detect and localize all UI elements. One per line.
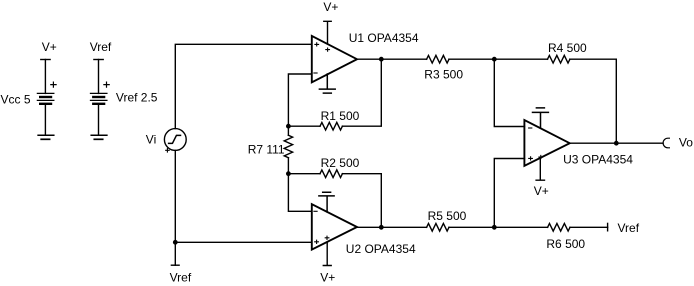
resistor R2 500	[320, 170, 342, 178]
op-amp U2 input plus marker	[315, 240, 319, 243]
label Vref right terminal	[618, 221, 640, 235]
wire R1 left	[288, 125, 320, 127]
terminal Vref bottom bar	[171, 264, 179, 266]
battery V2 plates	[91, 93, 107, 103]
resistor R3 500	[427, 55, 449, 63]
wire R7 bottom stub	[287, 158, 289, 174]
svg-text:Vref: Vref	[170, 271, 192, 285]
label R3 500	[424, 68, 463, 82]
svg-text:Vref: Vref	[618, 221, 640, 235]
wire R4 left	[494, 58, 547, 60]
label Vref 2.5	[116, 90, 158, 104]
svg-text:R4 500: R4 500	[548, 41, 587, 55]
battery V1 Vcc terminal bar	[41, 59, 50, 61]
battery V1 plates	[37, 93, 53, 103]
battery V2 Vref terminal bar	[94, 59, 103, 61]
label V+ below U3	[534, 184, 549, 198]
op-amp U2 triangle	[312, 204, 357, 249]
svg-text:U1 OPA4354: U1 OPA4354	[349, 31, 419, 45]
battery V1 top wire	[44, 60, 46, 94]
node junction U3 output R4	[614, 141, 619, 146]
resistor R4 500	[548, 55, 570, 63]
battery V2 top wire	[98, 60, 100, 94]
op-amp U2 power plus marker	[325, 236, 329, 239]
op-amp U3 Vplus pin	[536, 158, 544, 180]
node junction U2 output	[379, 225, 384, 230]
label Vref battery V2	[90, 40, 112, 54]
ground U2 inverted	[319, 192, 334, 212]
label R1 500	[321, 109, 360, 123]
wire U1 inverting input	[288, 74, 311, 126]
svg-text:R2 500: R2 500	[321, 156, 360, 170]
label R6 500	[546, 237, 585, 251]
ground U3 inverted	[533, 108, 549, 128]
op-amp U3 input plus marker	[529, 157, 533, 160]
op-amp U3 input minus marker	[529, 127, 532, 129]
node junction R2 R7 U2 inverting	[286, 171, 291, 176]
op-amp U3 triangle	[524, 120, 569, 166]
node junction R5 R6 U3 noninverting	[492, 225, 497, 230]
svg-text:Vref 2.5: Vref 2.5	[116, 90, 158, 104]
label Vcc 5	[1, 93, 31, 107]
ground U1	[319, 74, 335, 93]
wire U2 inverting input	[288, 174, 311, 212]
wire R7 top stub	[287, 126, 289, 135]
label U2 OPA4354	[346, 242, 416, 256]
label Vref bottom terminal	[170, 271, 192, 285]
label R4 500	[548, 41, 587, 55]
svg-text:R5 500: R5 500	[428, 209, 467, 223]
wire R2 left	[288, 173, 320, 175]
op-amp U2 Vplus pin	[323, 242, 331, 266]
op-amp U1 input plus marker	[315, 43, 319, 46]
svg-text:R1 500: R1 500	[321, 109, 360, 123]
op-amp U1 input minus marker	[314, 72, 317, 74]
node junction R1 R7 U1 inverting	[286, 124, 291, 129]
svg-text:U3 OPA4354: U3 OPA4354	[563, 153, 633, 167]
op-amp U3 power plus marker	[539, 155, 543, 158]
terminal Vref right bar	[607, 223, 609, 230]
label R5 500	[428, 209, 467, 223]
svg-text:U2 OPA4354: U2 OPA4354	[346, 242, 416, 256]
svg-text:V+: V+	[320, 270, 335, 284]
source Vi circle	[164, 129, 186, 151]
op-amp U1 Vplus pin	[324, 21, 331, 44]
ground battery V2	[91, 135, 107, 139]
wire R4 right down to U3 output	[570, 59, 616, 143]
svg-text:R6 500: R6 500	[546, 237, 585, 251]
op-amp U2 input minus marker	[314, 210, 317, 212]
battery V2 plus marker	[104, 82, 109, 87]
node junction R3 R4 U3 inverting	[492, 57, 497, 62]
label U1 OPA4354	[349, 31, 419, 45]
svg-text:Vref: Vref	[90, 40, 112, 54]
resistor R6 500	[548, 224, 570, 232]
resistor R1 500	[320, 122, 342, 130]
wire R6 left	[494, 226, 547, 228]
svg-text:Vo: Vo	[679, 135, 693, 149]
wire to U3 noninverting input	[494, 159, 524, 228]
node junction U1 output	[379, 57, 384, 62]
label Vi	[146, 133, 156, 147]
terminal Vo arc	[663, 138, 669, 148]
label V+ battery V1	[42, 40, 57, 54]
label Vo	[679, 135, 693, 149]
wire Vi bottom to Vref terminal	[174, 150, 176, 265]
wire U1 output row	[357, 58, 427, 60]
wire R2 right down to U2 output	[342, 174, 381, 228]
wire U3 output to Vo	[570, 142, 663, 144]
label U3 OPA4354	[563, 153, 633, 167]
battery V1 plus marker	[51, 82, 56, 87]
label R7 111	[248, 142, 285, 156]
battery V2 bottom wire	[98, 105, 100, 136]
wire R5 right	[449, 226, 494, 228]
resistor R7 111 vertical	[284, 135, 292, 157]
source Vi step waveform	[169, 135, 181, 143]
wire R1 right to U1 output	[342, 59, 381, 126]
svg-text:V+: V+	[323, 0, 338, 14]
battery V1 bottom wire	[44, 105, 46, 136]
label V+ above U1	[323, 0, 338, 14]
svg-text:Vi: Vi	[146, 133, 156, 147]
wire R6 right to Vref terminal	[570, 226, 608, 228]
node junction Vi minus / U2 plus	[173, 240, 178, 245]
ground battery V1	[38, 135, 54, 139]
wire Vi top to U1 plus input	[175, 44, 311, 128]
label V+ below U2	[320, 270, 335, 284]
label R2 500	[321, 156, 360, 170]
svg-text:R7 111: R7 111	[248, 142, 285, 156]
wire to U3 inverting input	[494, 59, 524, 126]
svg-text:R3 500: R3 500	[424, 68, 463, 82]
svg-text:Vcc 5: Vcc 5	[1, 93, 31, 107]
svg-text:V+: V+	[534, 184, 549, 198]
source Vi plus marker	[166, 149, 170, 153]
op-amp U1 triangle	[312, 36, 357, 82]
wire R3 right	[449, 58, 494, 60]
wire U2 output row	[357, 226, 427, 228]
wire to U2 plus input	[175, 241, 311, 243]
op-amp U1 power plus marker	[326, 48, 330, 51]
svg-text:V+: V+	[42, 40, 57, 54]
resistor R5 500	[427, 224, 449, 232]
